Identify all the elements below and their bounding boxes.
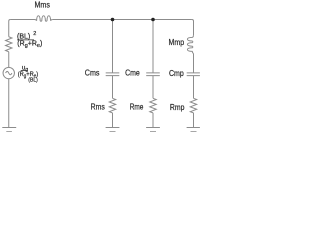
label (BL)^2/(Rg+Re) for resistor — [17, 31, 42, 49]
ground branch2 — [146, 127, 160, 129]
resistor (BL)^2/(Rg+Re) — [6, 37, 12, 52]
resistor Rmp — [190, 98, 196, 113]
svg-text:Rmp: Rmp — [170, 103, 185, 112]
wire left vertical from corner to resistor — [9, 20, 11, 37]
resistor Rms — [109, 98, 115, 113]
svg-text:Cme: Cme — [125, 69, 140, 78]
node A junction dot — [111, 18, 115, 22]
capacitor Cms — [106, 73, 120, 76]
source U1 ug(BL)/(Rg+Re) — [3, 67, 14, 78]
wire node B to top-right corner — [153, 19, 192, 21]
node B junction dot — [151, 18, 155, 22]
wire Cme to resistor Rme — [152, 76, 154, 99]
wire source to left ground — [8, 79, 10, 128]
wire Rme to ground — [152, 113, 154, 128]
svg-text:Cmp: Cmp — [169, 69, 184, 78]
wire branch1 node A to capacitor Cms — [112, 20, 114, 73]
ground left — [2, 127, 16, 129]
ground branch1 — [106, 127, 120, 129]
inductor Mmp — [187, 35, 193, 53]
wire node A to node B — [113, 19, 154, 21]
wire top-left horizontal to inductor Mms — [10, 19, 34, 21]
resistor Rme — [150, 98, 156, 113]
wire Mms to node A — [53, 19, 113, 21]
ground branch3 — [187, 127, 200, 129]
wire branch2 node B to capacitor Cme — [152, 20, 154, 73]
svg-text:Rms: Rms — [91, 103, 105, 112]
svg-text:(BL): (BL) — [28, 77, 38, 83]
svg-text:(BL): (BL) — [17, 33, 30, 40]
label ug/(Rg+Re)(BL) for source — [18, 65, 38, 84]
capacitor Cme — [146, 73, 160, 76]
wire Mmp to capacitor Cmp — [193, 54, 195, 73]
wire branch3 top-right corner down to inductor Mmp — [192, 20, 194, 36]
wire Cmp to resistor Rmp — [193, 76, 195, 99]
svg-text:2: 2 — [33, 31, 36, 37]
svg-text:Cms: Cms — [85, 69, 100, 78]
svg-text:Rme: Rme — [130, 103, 144, 112]
svg-text:Mms: Mms — [35, 1, 50, 10]
wire Rms to ground — [112, 113, 114, 128]
capacitor Cmp — [187, 73, 200, 76]
wire Rmp to ground — [193, 113, 195, 128]
wire resistor to source — [8, 52, 10, 68]
svg-text:(Rg+Re): (Rg+Re) — [17, 41, 42, 50]
inductor Mms — [35, 16, 53, 21]
svg-text:Mmp: Mmp — [169, 38, 185, 47]
wire Cms to resistor Rms — [112, 76, 114, 99]
